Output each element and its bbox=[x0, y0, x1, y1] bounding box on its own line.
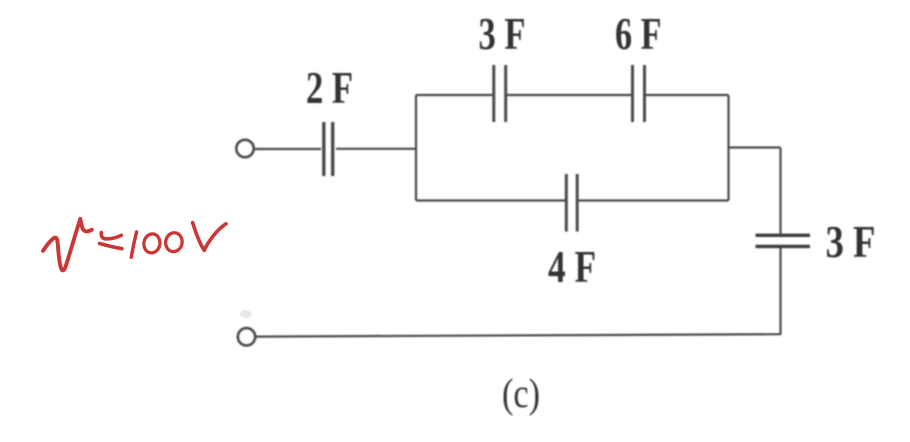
svg-text:2 F: 2 F bbox=[306, 63, 353, 113]
svg-text:6 F: 6 F bbox=[615, 9, 662, 59]
svg-text:3 F: 3 F bbox=[826, 217, 876, 267]
svg-text:(c): (c) bbox=[502, 370, 540, 416]
svg-text:3 F: 3 F bbox=[479, 9, 526, 59]
svg-text:4 F: 4 F bbox=[548, 242, 596, 292]
